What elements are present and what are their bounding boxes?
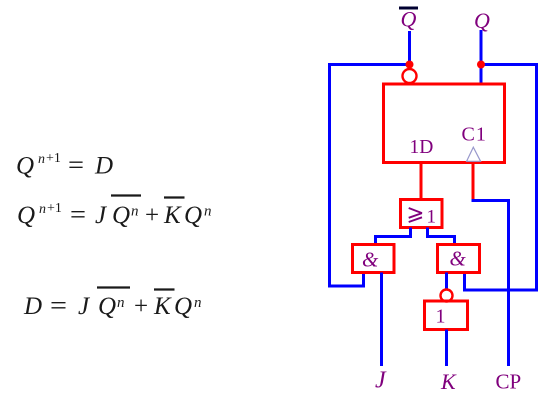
wire: J input	[380, 273, 383, 367]
wire: Qbar stem down to junction	[408, 31, 411, 68]
AND gate box left	[353, 245, 395, 273]
equation 2: Q^{n+1} = J (Qbar^n) + (Kbar) Q^n	[17, 196, 212, 230]
wire: right feedback vertical	[535, 63, 538, 292]
svg-text:n: n	[194, 295, 202, 311]
svg-text:n: n	[38, 152, 45, 167]
OR gate label >=1	[409, 208, 422, 222]
svg-text:Q: Q	[17, 202, 35, 229]
wire: CP vertical riser	[507, 199, 510, 366]
svg-text:J: J	[78, 293, 91, 320]
svg-text:n: n	[131, 204, 139, 220]
svg-text:+: +	[134, 293, 148, 320]
svg-text:1: 1	[427, 206, 437, 227]
svg-text:&: &	[362, 248, 379, 272]
wire: right AND to inverter bubble	[445, 273, 448, 291]
clock edge triangle	[467, 147, 481, 161]
svg-text:K: K	[163, 202, 182, 229]
equation 3: D = J (Qbar^n) + (Kbar) Q^n	[23, 288, 202, 321]
inverter box	[425, 301, 468, 330]
svg-text:Q: Q	[184, 202, 202, 229]
wire: left AND input stub from feedback	[362, 273, 365, 288]
svg-text:C1: C1	[462, 124, 487, 146]
svg-text:n: n	[117, 295, 125, 311]
AND gate box right	[438, 245, 480, 273]
svg-text:+1: +1	[47, 201, 62, 216]
svg-text:Q: Q	[474, 8, 490, 33]
svg-text:Q: Q	[16, 153, 34, 180]
inverter bubble	[441, 290, 453, 302]
wire: right AND input stub from feedback	[463, 273, 466, 292]
svg-text:+1: +1	[46, 151, 61, 166]
svg-text:Q: Q	[98, 293, 116, 320]
wire: right AND output to OR input	[428, 228, 455, 245]
node junction dot on Q	[477, 61, 485, 69]
wire: K input	[445, 330, 448, 367]
inversion bubble on flip-flop Qbar input	[403, 69, 417, 83]
svg-text:+: +	[145, 202, 159, 229]
svg-text:D: D	[23, 293, 42, 320]
svg-text:=: =	[68, 151, 84, 180]
svg-text:J: J	[95, 202, 108, 229]
svg-text:K: K	[440, 369, 457, 394]
wire: left feedback bottom horizontal	[329, 285, 364, 288]
svg-text:Q: Q	[174, 293, 192, 320]
svg-text:n: n	[39, 202, 46, 217]
svg-text:Q: Q	[112, 202, 130, 229]
svg-text:=: =	[50, 291, 67, 320]
svg-text:1: 1	[436, 305, 446, 327]
svg-text:1D: 1D	[410, 137, 434, 158]
wire: clock blue horizontal to CP riser	[472, 199, 511, 202]
svg-text:Q: Q	[401, 7, 417, 32]
wire: top-left horizontal from left feedback to Qbar junction	[329, 63, 410, 66]
wire: top-right horizontal from Q junction to right feedback	[481, 63, 538, 66]
svg-text:K: K	[153, 293, 172, 320]
equation 1: Q^{n+1} = D	[16, 151, 113, 180]
svg-text:J: J	[375, 368, 387, 394]
svg-text:n: n	[204, 204, 212, 220]
svg-text:D: D	[94, 153, 113, 180]
wire: left AND output to OR input	[376, 228, 411, 245]
wire: clock red below triangle	[472, 163, 475, 203]
svg-text:=: =	[70, 200, 86, 229]
svg-text:CP: CP	[496, 370, 522, 394]
OR gate box	[401, 200, 443, 228]
node Qbar label	[399, 7, 418, 32]
wire: left feedback vertical	[328, 63, 331, 288]
wire: D input red from OR gate to flip-flop	[420, 163, 423, 201]
node junction dot on Qbar	[406, 61, 414, 69]
flip-flop U1 box	[384, 84, 505, 163]
wire: right feedback bottom horizontal	[465, 289, 539, 292]
svg-text:&: &	[450, 247, 467, 271]
wire: Q stem down to box top	[480, 30, 483, 84]
